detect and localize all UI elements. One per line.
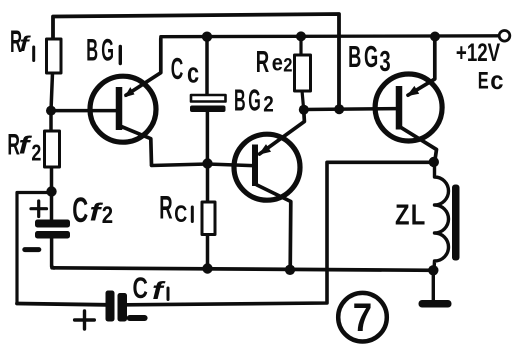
node rail/Cc [202,32,212,42]
capacitor Cf2 [35,220,70,239]
label BG3 [348,40,391,78]
label RC1 [159,189,192,228]
terminal +12V [499,31,510,42]
wire Re2 top lead [299,36,302,55]
wire ground row [52,268,433,271]
label BG1 [86,33,120,68]
label Cf1 [133,270,169,305]
capacitor Cf1 [106,291,128,322]
figure number circle 7 [338,293,387,342]
svg-text:c: c [490,67,503,95]
wire Rf1 bottom lead [51,73,53,111]
wire bottom row right of Cf1 to BG3 emitter [127,162,434,304]
wire Cf2 bottom lead to ground row [52,238,54,268]
wire Rf2 top lead [49,111,53,132]
wire Rf2 bottom lead [50,167,54,192]
svg-text:2: 2 [263,92,274,117]
svg-text:+12V: +12V [456,39,501,67]
resistor Rf1 [47,39,62,73]
label Ec [478,67,504,95]
label Rf1 [10,25,34,61]
svg-text:2: 2 [31,140,41,166]
wire bottom row left of Cf1 [17,304,106,305]
wire Cc top lead [205,37,209,96]
svg-text:C: C [171,53,184,86]
svg-text:7: 7 [353,295,372,340]
svg-text:R: R [159,189,172,226]
node ZL bottom/ground [428,265,438,275]
wire Re2 bottom lead [302,91,304,110]
resistor Rf2 [45,131,60,167]
node BG2 emitter [285,265,295,275]
node rail/Re2 [296,31,306,41]
svg-text:2: 2 [283,54,292,76]
node Rf1/Rf2/BG1 base [46,106,56,116]
svg-text:C: C [133,270,149,305]
svg-text:C: C [174,202,187,228]
node Rf2/Cf2 [46,186,56,196]
svg-text:c: c [187,58,199,90]
label Cc [171,53,199,89]
svg-text:3: 3 [379,46,390,78]
wire +12V supply rail [161,36,500,40]
label Rf2 [7,129,41,166]
wire left feedback loop [17,193,52,304]
wire RC1 bottom lead [206,234,210,269]
wire BG1 base from Rf1/Rf2 node [51,109,116,113]
svg-text:C: C [72,192,88,230]
label +12V [456,39,501,67]
resistor Re2 [295,55,311,91]
label BG2 [234,84,274,118]
capacitor Cc [190,95,226,112]
label Cf2 [72,192,113,230]
svg-text:BG: BG [348,40,381,74]
polarity + of Cf1 [75,311,95,329]
polarity + of Cf2 [31,201,47,217]
svg-text:E: E [478,67,489,94]
ground [419,270,452,308]
node BG3 emitter/ZL top [429,157,439,167]
wire Cc bottom lead [206,112,210,164]
transistor BG2 [208,110,305,270]
wire RC1 top lead [206,164,210,203]
inductor ZL [434,162,460,270]
svg-text:ZL: ZL [395,198,426,231]
svg-text:BG: BG [234,84,263,118]
node A Cc/BG1/BG2/RC1 [202,158,212,168]
svg-text:R: R [256,45,269,79]
wire Cf2 top lead [50,192,54,221]
node Re2/BG2 collector/BG3 base [299,105,309,115]
svg-text:e: e [272,49,283,76]
node RC1 bottom [202,263,212,273]
node BG3 base/feedback [334,104,344,114]
node rail/BG3 collector [430,32,440,42]
resistor RC1 [202,202,215,235]
svg-text:BG: BG [86,33,117,68]
label ZL [395,198,426,231]
polarity - of Cf1 [130,315,145,321]
svg-text:2: 2 [102,202,113,229]
label Re2 [256,45,293,79]
polarity - of Cf2 [25,247,39,252]
transistor BG1 [90,39,161,165]
wire BG1 emitter row to node A [152,164,208,166]
transistor BG3 [304,37,442,163]
wire feedback top: Rf1 top to BG3 base column [53,14,339,109]
